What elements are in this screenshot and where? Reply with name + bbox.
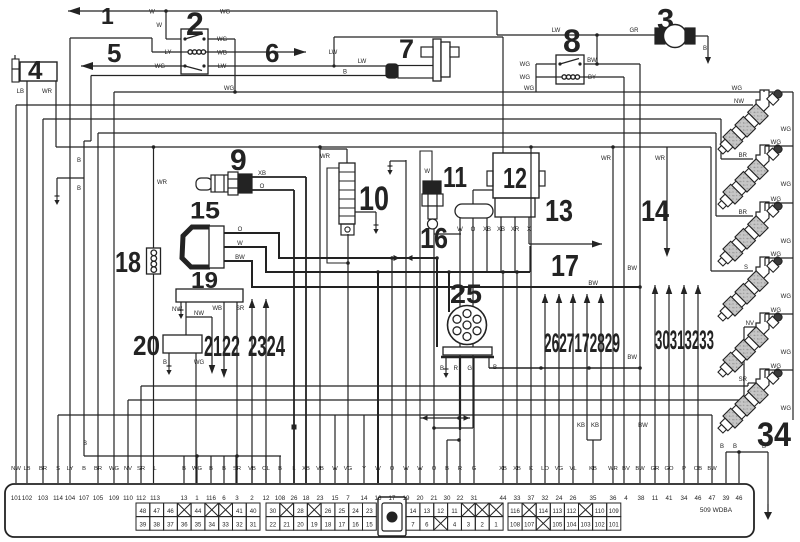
arrow 26 (544, 294, 546, 483)
svg-text:W: W (149, 10, 155, 16)
svg-text:SR: SR (233, 466, 241, 472)
wire drop to injector 3 BR (715, 133, 717, 216)
svg-text:W: W (237, 241, 243, 247)
wire with ground near plug (405, 160, 407, 483)
svg-text:103: 103 (38, 495, 49, 502)
svg-text:WG: WG (224, 86, 235, 92)
hall sender feed drops (436, 258, 438, 347)
tilt switch 4 (20, 62, 57, 81)
svg-text:2324: 2324 (248, 331, 285, 363)
svg-text:BW: BW (588, 281, 598, 287)
svg-text:12: 12 (263, 495, 270, 502)
svg-text:SR: SR (739, 377, 748, 383)
connector grid C pins 14-1 (406, 503, 420, 517)
svg-text:WG: WG (217, 37, 228, 43)
svg-text:509 WDBA: 509 WDBA (700, 507, 733, 514)
svg-text:LY: LY (165, 50, 172, 56)
svg-text:WG: WG (781, 182, 792, 188)
connector grid B pins 30-15 (266, 503, 280, 517)
svg-text:8: 8 (563, 23, 581, 59)
svg-text:BW: BW (627, 266, 637, 272)
svg-text:WG: WG (771, 308, 782, 314)
svg-text:WG: WG (781, 294, 792, 300)
svg-text:W: W (156, 23, 162, 29)
svg-text:32: 32 (236, 523, 243, 529)
svg-text:W: W (375, 466, 381, 472)
svg-text:WG: WG (109, 466, 119, 472)
svg-text:11: 11 (451, 509, 458, 515)
svg-text:113: 113 (553, 509, 563, 515)
svg-text:LW: LW (358, 59, 367, 65)
svg-text:BR: BR (39, 466, 47, 472)
svg-text:G: G (472, 466, 477, 472)
svg-text:110: 110 (123, 495, 133, 502)
relay 2 WB output, wire 6 off-page arrow (208, 51, 306, 53)
svg-text:O: O (471, 227, 476, 233)
svg-text:KB: KB (589, 466, 597, 472)
svg-text:XB: XB (513, 466, 521, 472)
svg-text:25: 25 (450, 279, 482, 309)
svg-text:XB: XB (302, 466, 310, 472)
svg-text:13: 13 (545, 193, 573, 228)
svg-text:112: 112 (567, 509, 577, 515)
svg-text:BR: BR (739, 210, 748, 216)
svg-text:26: 26 (570, 495, 577, 502)
injector 3 (756, 202, 769, 225)
svg-text:B: B (82, 466, 86, 472)
svg-text:24: 24 (556, 495, 563, 502)
svg-text:B: B (440, 366, 444, 372)
column 107 B from fuel pump wire (90, 76, 92, 142)
svg-text:2627172829: 2627172829 (544, 328, 620, 358)
meter 15 W output (224, 247, 530, 272)
svg-text:XB: XB (483, 227, 491, 233)
svg-text:BR: BR (739, 153, 748, 159)
column 101 NW / wire NW to injector 1 (15, 105, 17, 483)
svg-text:S: S (744, 265, 748, 271)
svg-text:X: X (527, 227, 531, 233)
svg-text:38: 38 (638, 495, 645, 502)
unit 20 feed (185, 317, 187, 335)
svg-text:WB: WB (217, 51, 227, 57)
svg-text:20: 20 (133, 330, 160, 361)
arrows 30-33 (654, 285, 656, 483)
svg-text:VL: VL (569, 466, 577, 472)
svg-text:NW: NW (172, 307, 182, 313)
svg-text:W: W (403, 466, 409, 472)
svg-text:LB: LB (23, 466, 30, 472)
svg-text:XB: XB (497, 227, 505, 233)
svg-text:40: 40 (250, 509, 257, 515)
svg-text:B: B (733, 444, 737, 450)
svg-text:W: W (457, 227, 463, 233)
wire rise to injector 6 SR (747, 383, 749, 386)
unit 13 pins XB XR X (500, 217, 502, 272)
relay 2 coil feed LY from wire 5 (70, 37, 152, 39)
svg-text:32: 32 (542, 495, 549, 502)
svg-text:WG: WG (732, 86, 743, 92)
ground branch of B wire (57, 177, 84, 179)
wire W drop to relay 2 (165, 11, 167, 39)
svg-text:WG: WG (520, 75, 531, 81)
svg-text:WB: WB (212, 306, 222, 312)
svg-text:35: 35 (590, 495, 597, 502)
svg-text:17: 17 (338, 523, 345, 529)
svg-text:108: 108 (275, 495, 286, 502)
wire B to fuel pump (91, 75, 386, 77)
inline connector on O wire (292, 425, 297, 430)
wire 5 (WG) off-page arrow (81, 65, 185, 67)
svg-text:LO: LO (541, 466, 549, 472)
svg-text:37: 37 (167, 523, 174, 529)
svg-text:18: 18 (115, 247, 141, 279)
svg-text:WG: WG (781, 127, 792, 133)
svg-text:46: 46 (736, 495, 743, 502)
svg-text:13: 13 (181, 495, 188, 502)
svg-text:116: 116 (206, 495, 216, 502)
svg-text:33: 33 (222, 523, 229, 529)
svg-text:22: 22 (270, 523, 277, 529)
svg-text:O: O (238, 227, 243, 233)
svg-text:GR: GR (630, 28, 640, 34)
svg-text:BW: BW (635, 466, 645, 472)
switch 10 WR feed (346, 149, 348, 163)
sensor 9 XB wire (252, 176, 306, 178)
svg-text:WR: WR (608, 466, 618, 472)
unit 13 X pin arrow 17 (528, 217, 530, 244)
meter 15 O output (224, 233, 437, 258)
svg-text:6: 6 (265, 38, 279, 68)
svg-text:VB: VB (248, 466, 256, 472)
svg-text:WG: WG (220, 10, 231, 16)
svg-text:WG: WG (781, 406, 792, 412)
sender 25 pin B ground (445, 358, 447, 368)
svg-text:22: 22 (457, 495, 464, 502)
svg-text:OL: OL (262, 466, 271, 472)
svg-text:BY: BY (588, 75, 596, 81)
svg-text:116: 116 (510, 509, 520, 515)
column 16 W thick (377, 272, 379, 483)
wire rise to injector 5 NV (743, 327, 745, 400)
svg-text:WG: WG (781, 350, 792, 356)
svg-text:XR: XR (511, 227, 520, 233)
column 37 K (530, 147, 532, 483)
unit 19 SR pin (236, 302, 238, 483)
svg-text:41: 41 (236, 509, 243, 515)
column 110 NV bus (127, 400, 129, 483)
svg-text:WG: WG (771, 197, 782, 203)
svg-text:33: 33 (514, 495, 521, 502)
svg-text:14: 14 (641, 195, 669, 228)
svg-text:KB: KB (591, 423, 599, 429)
svg-text:P: P (682, 466, 686, 472)
svg-text:XB: XB (499, 466, 507, 472)
svg-text:23: 23 (317, 495, 324, 502)
column 103 BR / wire to injector 2 (42, 119, 44, 483)
svg-text:25: 25 (338, 509, 345, 515)
svg-text:1: 1 (101, 3, 114, 29)
column 47 BW right (711, 415, 713, 483)
relay 2 LW output to fuel pump (208, 65, 386, 67)
svg-text:LY: LY (67, 466, 74, 472)
relay 8 BW output (584, 63, 640, 65)
hall sender base (443, 347, 492, 355)
column 104 LY (69, 38, 71, 483)
svg-text:WG: WG (781, 239, 792, 245)
svg-text:102: 102 (22, 495, 33, 502)
motor 3 ground B (695, 35, 708, 37)
svg-text:BR: BR (94, 466, 102, 472)
unit 20 WG output (195, 353, 197, 483)
svg-text:B: B (163, 360, 167, 366)
svg-text:BW: BW (235, 255, 245, 261)
svg-text:104: 104 (566, 523, 577, 529)
svg-text:WG: WG (192, 466, 202, 472)
svg-text:BW: BW (638, 423, 648, 429)
injector 5 (756, 313, 769, 336)
svg-text:R: R (458, 466, 462, 472)
injector 6 (756, 369, 769, 392)
svg-text:WG: WG (771, 140, 782, 146)
svg-text:7: 7 (399, 34, 414, 64)
svg-text:OB: OB (694, 466, 703, 472)
svg-text:34: 34 (208, 523, 215, 529)
svg-text:14: 14 (361, 495, 368, 502)
svg-text:NW: NW (734, 99, 744, 105)
svg-text:SR: SR (137, 466, 145, 472)
svg-text:5: 5 (107, 38, 121, 68)
svg-text:28: 28 (297, 509, 304, 515)
column 102 LB from tilt switch 4 (26, 81, 28, 483)
svg-text:101: 101 (609, 523, 620, 529)
svg-text:16: 16 (352, 523, 359, 529)
svg-text:107: 107 (79, 495, 90, 502)
svg-text:WR: WR (157, 180, 168, 186)
svg-text:107: 107 (524, 523, 535, 529)
column 17 O (391, 258, 393, 483)
svg-text:113: 113 (150, 495, 160, 502)
svg-text:47: 47 (709, 495, 716, 502)
svg-text:2: 2 (250, 495, 254, 502)
sender 25 pin G (473, 358, 475, 483)
svg-text:2122: 2122 (204, 331, 240, 363)
sender 25 pin R (459, 358, 461, 430)
wire WR drop column 36 (612, 147, 614, 483)
svg-text:WG: WG (520, 62, 531, 68)
injector 4 (756, 257, 769, 280)
svg-text:20: 20 (417, 495, 424, 502)
arrow 23 (251, 299, 253, 483)
svg-text:VG: VG (344, 466, 353, 472)
svg-text:O: O (432, 466, 437, 472)
meter 15 BW output (224, 261, 640, 287)
connector round plug with dot (378, 497, 406, 536)
svg-text:K: K (529, 466, 533, 472)
svg-text:15: 15 (366, 523, 373, 529)
svg-text:GO: GO (664, 466, 674, 472)
connector pill (455, 204, 493, 218)
bus wire 415 across (58, 414, 712, 416)
relay 8 BY output (584, 76, 624, 78)
svg-text:36: 36 (181, 523, 188, 529)
svg-text:WG: WG (771, 364, 782, 370)
svg-text:46: 46 (167, 509, 174, 515)
svg-text:37: 37 (528, 495, 535, 502)
relay 2 top-right WG output (208, 38, 235, 40)
svg-text:105: 105 (552, 523, 563, 529)
svg-text:B: B (83, 441, 87, 447)
svg-text:NW: NW (194, 311, 204, 317)
injector rail WG bus (792, 92, 794, 420)
svg-text:B: B (278, 466, 282, 472)
svg-text:20: 20 (297, 523, 304, 529)
svg-text:WR: WR (601, 156, 612, 162)
column 23 VB (319, 147, 321, 483)
svg-text:LB: LB (17, 89, 24, 95)
svg-text:B: B (209, 466, 213, 472)
svg-text:12: 12 (503, 163, 527, 195)
injector 2 (756, 145, 769, 168)
column 14 Y (363, 415, 365, 483)
svg-text:LW: LW (552, 28, 561, 34)
svg-text:WR: WR (42, 89, 53, 95)
svg-text:4: 4 (624, 495, 628, 502)
svg-text:BW: BW (707, 466, 717, 472)
svg-text:WR: WR (320, 154, 331, 160)
column 109 WG trunk (113, 92, 115, 483)
svg-text:34: 34 (681, 495, 688, 502)
svg-text:11: 11 (443, 162, 467, 194)
svg-text:W: W (417, 466, 423, 472)
svg-text:NW: NW (11, 466, 21, 472)
svg-text:31: 31 (250, 523, 257, 529)
svg-text:18: 18 (303, 495, 310, 502)
svg-text:B: B (182, 466, 186, 472)
svg-text:36: 36 (610, 495, 617, 502)
svg-text:38: 38 (153, 523, 160, 529)
svg-text:LW: LW (218, 64, 227, 70)
svg-text:103: 103 (581, 523, 592, 529)
arrow 28 (572, 294, 574, 483)
switch 10 left wire (327, 168, 348, 263)
svg-text:SR: SR (236, 306, 245, 312)
svg-text:19: 19 (311, 523, 318, 529)
columns under bracket risers (196, 455, 198, 457)
svg-text:XB: XB (258, 171, 266, 177)
svg-text:39: 39 (140, 523, 147, 529)
svg-text:B: B (445, 466, 449, 472)
svg-text:108: 108 (510, 523, 521, 529)
svg-text:WR: WR (655, 156, 666, 162)
svg-text:4: 4 (28, 55, 43, 85)
svg-text:G: G (467, 366, 472, 372)
svg-text:23: 23 (366, 509, 373, 515)
svg-text:B: B (343, 70, 347, 76)
svg-text:W: W (332, 466, 338, 472)
svg-text:WG: WG (194, 360, 205, 366)
column 114 S / bus 415 (57, 415, 59, 483)
svg-text:3: 3 (235, 495, 239, 502)
svg-text:26: 26 (325, 509, 332, 515)
svg-text:VG: VG (555, 466, 564, 472)
svg-text:35: 35 (195, 523, 202, 529)
arrow 24 (265, 299, 267, 483)
svg-text:6: 6 (222, 495, 226, 502)
svg-text:109: 109 (609, 509, 620, 515)
svg-text:NV: NV (746, 321, 754, 327)
switch 10 output column VG (347, 234, 349, 483)
sensor 9 O wire (252, 189, 294, 191)
svg-text:WG: WG (771, 252, 782, 258)
wire LW frame over pump (334, 36, 503, 38)
switch 10 lower contact box (341, 224, 354, 235)
svg-text:B: B (77, 186, 81, 192)
svg-text:21: 21 (431, 495, 438, 502)
svg-text:17: 17 (551, 248, 579, 283)
column 112 SR bus (140, 386, 142, 483)
svg-text:39: 39 (723, 495, 730, 502)
svg-text:NV: NV (124, 466, 132, 472)
svg-text:114: 114 (538, 509, 548, 515)
column 15 W (334, 415, 336, 483)
plug W feed wire (420, 151, 432, 483)
svg-text:14: 14 (410, 509, 417, 515)
pill pins W O XB (459, 218, 461, 418)
svg-text:21: 21 (283, 523, 290, 529)
svg-text:17: 17 (389, 495, 396, 502)
svg-text:WG: WG (524, 86, 535, 92)
svg-text:11: 11 (652, 495, 659, 502)
svg-text:O: O (260, 184, 265, 190)
svg-text:VB: VB (316, 466, 324, 472)
svg-text:30: 30 (270, 509, 277, 515)
svg-text:15: 15 (190, 198, 220, 225)
svg-text:44: 44 (500, 495, 507, 502)
unit 18 feed (153, 147, 155, 248)
svg-text:B: B (703, 46, 707, 52)
tilt switch WR wire to injector 4 (56, 146, 711, 148)
unit 19 WB pin arrow 22 (223, 302, 225, 369)
svg-text:46: 46 (695, 495, 702, 502)
arrow 29 pair KB KB (586, 294, 588, 440)
svg-text:LW: LW (329, 50, 338, 56)
svg-text:W: W (424, 169, 430, 175)
svg-text:47: 47 (153, 509, 160, 515)
columns 39 46 B with ground (725, 452, 727, 483)
svg-text:48: 48 (140, 509, 147, 515)
svg-text:7: 7 (346, 495, 350, 502)
svg-text:BW: BW (627, 355, 637, 361)
svg-text:104: 104 (65, 495, 76, 502)
svg-text:24: 24 (352, 509, 359, 515)
svg-text:44: 44 (195, 509, 202, 515)
arrow 27 (558, 294, 560, 483)
svg-text:S: S (56, 466, 60, 472)
switch 10 right ground (355, 211, 376, 213)
svg-text:GR: GR (651, 466, 660, 472)
svg-text:13: 13 (423, 509, 430, 515)
svg-text:109: 109 (109, 495, 120, 502)
svg-text:105: 105 (93, 495, 104, 502)
svg-text:114: 114 (53, 495, 63, 502)
svg-text:18: 18 (325, 523, 332, 529)
svg-text:O: O (390, 466, 395, 472)
svg-text:41: 41 (666, 495, 673, 502)
svg-text:KB: KB (577, 423, 585, 429)
ECU connector strip (5, 484, 754, 537)
bracket wire joining B columns (84, 455, 281, 457)
wire drop to injector 2 BR (720, 119, 722, 159)
